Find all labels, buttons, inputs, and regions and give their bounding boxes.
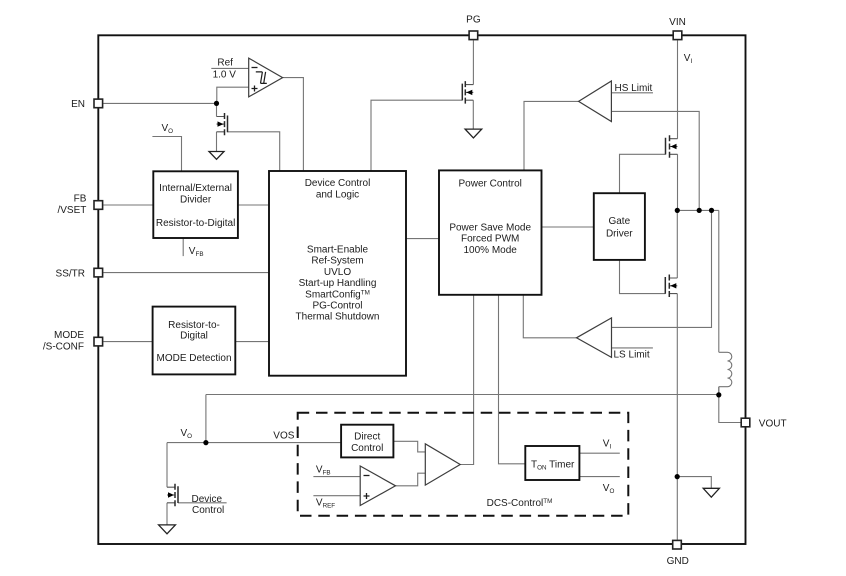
wire FB/VSET pin to divider block xyxy=(103,204,153,206)
svg-text:UVLO: UVLO xyxy=(324,267,351,278)
ground below Q1 xyxy=(209,152,224,160)
svg-text:Digital: Digital xyxy=(180,330,208,341)
block Power Control xyxy=(439,170,542,294)
svg-text:Thermal Shutdown: Thermal Shutdown xyxy=(296,312,380,323)
wire VO node to Direct Control xyxy=(167,442,341,444)
svg-text:100% Mode: 100% Mode xyxy=(464,245,518,256)
wire VIN pin to Q3 drain xyxy=(677,40,679,138)
pin FB/VSET xyxy=(94,201,103,210)
wire VREF input to comparator U4 xyxy=(313,495,360,497)
wire Q2 gate to Device Control block xyxy=(371,100,462,170)
wire Q3 gate to Gate Driver xyxy=(620,154,666,193)
wire MODE pin to MODE detection block xyxy=(103,341,152,343)
svg-text:1.0 V: 1.0 V xyxy=(213,69,237,80)
wire VO stub into divider block xyxy=(152,137,181,172)
transistor Q5 device control MOSFET xyxy=(167,484,178,507)
svg-text:Device: Device xyxy=(192,494,223,505)
wire SW node to inductor L1 xyxy=(718,210,720,352)
op-amp U5 DCS driver xyxy=(425,444,460,485)
wire MODE detection block to Device Control block xyxy=(235,341,269,343)
wire HS Limit label stub xyxy=(611,92,653,94)
wire comparator plus input from EN junction xyxy=(217,87,249,103)
svg-text:Divider: Divider xyxy=(180,195,212,206)
svg-text:SS/TR: SS/TR xyxy=(56,269,85,280)
wire driver output to Power Control xyxy=(460,295,473,465)
wire VFB stub below divider xyxy=(182,238,184,256)
wire Q1 gate to Device Control block xyxy=(228,132,280,171)
wire EN pin to junction xyxy=(103,102,216,104)
DCS-Control dashed box xyxy=(298,413,629,516)
pin SS/TR xyxy=(94,268,103,277)
inductor L1 xyxy=(719,352,732,386)
wire SS/TR pin to Device Control block xyxy=(103,272,269,274)
svg-text:VOUT: VOUT xyxy=(759,419,787,430)
svg-text:VIN: VIN xyxy=(669,17,686,28)
op-amp U2 HS Limit comparator xyxy=(579,81,612,122)
block Direct Control xyxy=(341,425,393,458)
svg-text:Forced PWM: Forced PWM xyxy=(461,234,519,245)
svg-text:Power Control: Power Control xyxy=(459,178,522,189)
svg-text:Ref-System: Ref-System xyxy=(311,256,363,267)
wire VO node to Q5 drain xyxy=(166,443,168,488)
svg-text:Device Control: Device Control xyxy=(305,178,371,189)
node SW junction 1 xyxy=(675,208,680,213)
wire HS Limit comparator output to Power Control xyxy=(524,101,579,170)
block Device Control and Logic xyxy=(269,171,406,376)
wire SW node to Q4 drain xyxy=(676,210,678,278)
wire TON timer VI output xyxy=(579,452,619,454)
transistor Q2 PG open-drain MOSFET xyxy=(462,81,473,104)
pin GND xyxy=(673,540,682,549)
wire Q4 source to GND pin xyxy=(676,294,678,540)
svg-text:Start-up Handling: Start-up Handling xyxy=(299,278,377,289)
svg-text:EN: EN xyxy=(71,99,85,110)
wire Q1 source to ground xyxy=(216,132,218,152)
svg-text:Resistor-to-: Resistor-to- xyxy=(168,320,220,331)
wire Device Control block to Power Control block xyxy=(406,238,439,240)
wire inductor L1 to VOUT pin xyxy=(719,387,741,423)
wire divider block to Device Control block xyxy=(238,204,269,206)
op-amp U1 EN comparator with hysteresis xyxy=(249,58,283,97)
pin VIN xyxy=(673,31,682,40)
wire Gate Driver to Q4 gate xyxy=(620,260,666,294)
block Gate Driver xyxy=(594,193,645,260)
ground near GND pin xyxy=(703,488,719,497)
wire Power Control to TON timer xyxy=(499,295,526,464)
wire LS limit sense from SW node xyxy=(612,210,712,327)
wire EN junction to Q1 drain xyxy=(216,103,218,116)
IC boundary box xyxy=(98,35,745,544)
transistor Q1 EN pulldown MOSFET xyxy=(217,113,228,135)
wire Q3 source to SW node xyxy=(677,154,679,210)
wire Direct Control output to driver xyxy=(393,441,425,452)
svg-text:Driver: Driver xyxy=(606,229,633,240)
wire LS Limit label stub xyxy=(612,347,653,349)
block Internal/External Divider xyxy=(153,171,238,238)
svg-text:GND: GND xyxy=(667,556,689,567)
wire TON timer VO output xyxy=(579,476,619,478)
svg-text:/S-CONF: /S-CONF xyxy=(43,342,84,353)
transistor Q3 high-side power MOSFET xyxy=(666,135,678,158)
svg-text:and Logic: and Logic xyxy=(316,190,359,201)
svg-text:FB: FB xyxy=(74,194,87,205)
svg-text:PG: PG xyxy=(466,15,481,26)
wire VFB input to comparator U4 xyxy=(313,476,360,478)
wire comparator U1 output to Device Control block xyxy=(283,78,304,171)
svg-text:Direct: Direct xyxy=(354,431,380,442)
svg-text:Control: Control xyxy=(351,443,383,454)
wire Q5 source to ground xyxy=(166,503,168,525)
node VOUT sense junction xyxy=(716,392,721,397)
node SW junction 3 xyxy=(709,208,714,213)
wire LS Limit comparator output to Power Control xyxy=(523,295,576,338)
wire comparator U4 output to driver xyxy=(396,473,426,486)
node VO junction xyxy=(203,440,208,445)
wire Ref 1.0V stub to comparator minus input xyxy=(211,67,248,69)
svg-text:Control: Control xyxy=(192,505,224,516)
svg-text:Internal/External: Internal/External xyxy=(159,183,232,194)
node SW junction 2 xyxy=(697,208,702,213)
svg-text:MODE Detection: MODE Detection xyxy=(156,353,231,364)
op-amp U3 LS Limit comparator xyxy=(577,318,612,358)
svg-text:/VSET: /VSET xyxy=(57,205,86,216)
ground below Q5 xyxy=(159,525,176,534)
pin VOUT xyxy=(741,418,750,427)
pin MODE/S-CONF xyxy=(94,337,103,346)
wire PG pin to Q2 drain xyxy=(472,40,474,84)
op-amp U4 DCS error comparator xyxy=(360,466,395,506)
svg-text:VOS: VOS xyxy=(273,431,294,442)
wire GND junction to ground symbol xyxy=(677,477,711,489)
svg-text:LS Limit: LS Limit xyxy=(614,349,650,360)
block Resistor-to-Digital MODE Detection xyxy=(153,307,236,375)
pin EN xyxy=(94,99,103,108)
ground below Q2 xyxy=(465,129,482,138)
transistor Q4 low-side power MOSFET xyxy=(665,275,677,298)
svg-text:Power Save Mode: Power Save Mode xyxy=(449,222,531,233)
wire Q2 source to ground xyxy=(472,100,474,129)
svg-text:DCS-ControlTM: DCS-ControlTM xyxy=(487,498,553,509)
block TON Timer xyxy=(525,446,579,480)
svg-text:MODE: MODE xyxy=(54,330,84,341)
svg-text:PG-Control: PG-Control xyxy=(312,301,362,312)
wire Q5 gate stub Device Control xyxy=(178,502,227,504)
wire HS limit sense from SW node xyxy=(611,111,699,210)
wire VOS sense line xyxy=(206,387,719,443)
svg-text:SmartConfigTM: SmartConfigTM xyxy=(305,289,370,300)
node EN junction xyxy=(214,101,219,106)
pin PG xyxy=(469,31,478,40)
wire SW node horizontal xyxy=(677,209,719,211)
wire Power Control to Gate Driver xyxy=(542,226,594,228)
svg-text:Smart-Enable: Smart-Enable xyxy=(307,245,369,256)
node GND junction xyxy=(675,474,680,479)
svg-text:Resistor-to-Digital: Resistor-to-Digital xyxy=(156,218,235,229)
svg-text:HS Limit: HS Limit xyxy=(615,83,653,94)
svg-text:Ref: Ref xyxy=(217,58,233,69)
svg-text:Gate: Gate xyxy=(608,216,630,227)
